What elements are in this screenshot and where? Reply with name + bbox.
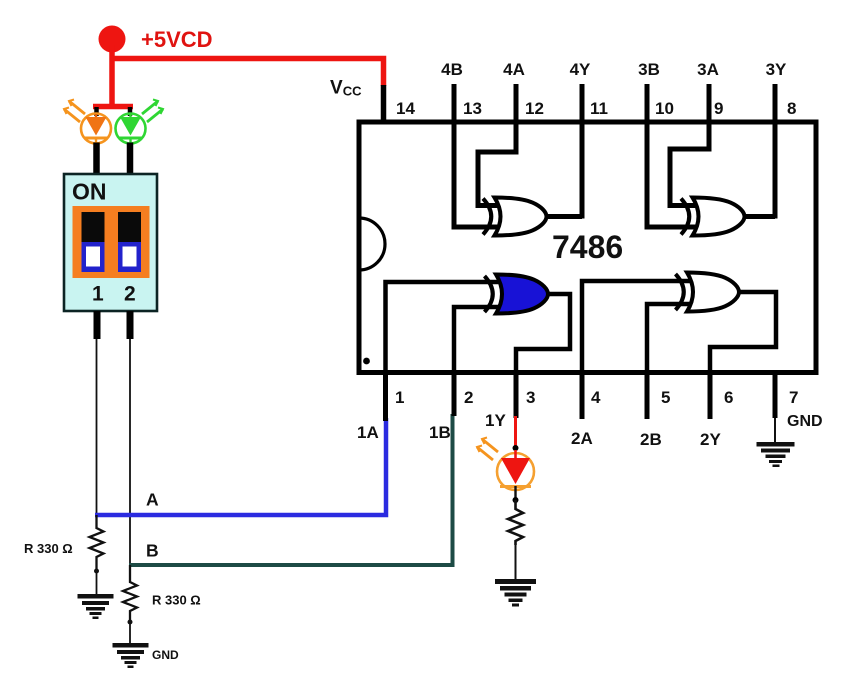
label +5VCD	[141, 27, 213, 52]
wire red +5V horizontal to pin 14	[112, 59, 384, 87]
svg-text:2: 2	[124, 283, 136, 306]
wire black stub into LED D1	[94, 107, 99, 116]
svg-text:1B: 1B	[429, 423, 451, 442]
svg-text:2Y: 2Y	[700, 430, 721, 449]
pin number 6	[724, 388, 733, 407]
wire red pin 3 to LED D3	[514, 416, 517, 450]
ground below R1	[78, 594, 114, 619]
wire pin 9 input hook to XOR U1C	[670, 84, 709, 206]
wire pin 2 stub below IC	[452, 372, 457, 416]
IC U1 7486 body	[359, 122, 816, 373]
svg-text:7: 7	[789, 388, 798, 407]
label 3B	[638, 60, 660, 79]
svg-text:2: 2	[464, 388, 473, 407]
resistor R3 at LED D3	[508, 500, 523, 579]
svg-text:3: 3	[526, 388, 535, 407]
svg-text:R 330 Ω: R 330 Ω	[152, 593, 201, 608]
label 4A	[503, 60, 525, 79]
wire pin 4 input to XOR U1B	[582, 281, 691, 372]
pin number 13	[463, 99, 482, 118]
wire black switch pin 1 stub	[94, 311, 101, 339]
wire XOR U1A output to pin 3	[516, 294, 570, 372]
wire black switch pin 2 stub	[127, 311, 134, 339]
wire black LED D2 lead to switch	[127, 143, 134, 177]
label R2 value	[152, 593, 201, 608]
wire red tee bar over LEDs	[93, 104, 133, 110]
wire black stub into LED D2	[128, 107, 133, 116]
pin number 9	[714, 99, 723, 118]
svg-text:4: 4	[591, 388, 601, 407]
pin number 3	[526, 388, 535, 407]
svg-text:9: 9	[714, 99, 723, 118]
wire red +5V vertical from node to LED tee	[109, 45, 115, 107]
pin number 7	[789, 388, 798, 407]
junction dot below LED D3	[513, 497, 519, 503]
svg-text:1: 1	[395, 388, 404, 407]
wire pin 1 input to XOR U1A	[386, 282, 504, 372]
pin number 10	[655, 99, 674, 118]
resistor R1 330 ohm	[90, 515, 104, 594]
label 2Y	[700, 430, 721, 449]
svg-text:3A: 3A	[697, 60, 719, 79]
svg-text:GND: GND	[787, 413, 823, 430]
svg-text:7486: 7486	[552, 229, 623, 265]
wire teal net B to pin 2	[129, 414, 453, 565]
svg-text:ON: ON	[72, 179, 107, 205]
svg-text:10: 10	[655, 99, 674, 118]
wire pin 5 input to XOR U1B	[647, 304, 691, 372]
XOR gate U1A (blue)	[485, 275, 549, 314]
ground below R2 with GND label	[113, 643, 180, 668]
label 1A	[357, 423, 379, 442]
XOR gate U1C	[681, 198, 745, 236]
label 1Y	[485, 411, 506, 430]
wire pin 10 input to XOR U1C	[647, 84, 696, 227]
label 1B	[429, 423, 451, 442]
svg-text:R 330 Ω: R 330 Ω	[24, 541, 73, 556]
svg-text:4A: 4A	[503, 60, 525, 79]
wire pin 2 input to XOR U1A	[454, 307, 503, 372]
XOR gate U1D	[483, 198, 547, 236]
node A label	[146, 490, 159, 510]
svg-text:14: 14	[396, 99, 415, 118]
wire blue net A to pin 1	[95, 418, 386, 515]
wire pin 4 stub below IC	[580, 372, 585, 419]
svg-text:4B: 4B	[441, 60, 463, 79]
svg-text:2B: 2B	[640, 430, 662, 449]
wire pin 3 stub below IC	[514, 372, 519, 418]
wire pin 12 input hook to XOR U1D	[478, 84, 516, 206]
svg-text:GND: GND	[152, 648, 179, 662]
label 7486	[552, 229, 623, 265]
pin number 5	[661, 388, 670, 407]
svg-text:6: 6	[724, 388, 733, 407]
pin number 11	[590, 99, 608, 118]
svg-text:A: A	[146, 490, 159, 510]
svg-text:+5VCD: +5VCD	[141, 27, 213, 52]
label 2B	[640, 430, 662, 449]
wire black pin 14 stub	[381, 85, 387, 122]
LED D1 (orange)	[64, 100, 111, 144]
XOR gate U1B	[676, 273, 740, 312]
svg-text:2A: 2A	[571, 429, 593, 448]
label 4B	[441, 60, 463, 79]
ground below LED resistor	[495, 579, 536, 607]
label 3Y	[766, 60, 787, 79]
label 2A	[571, 429, 593, 448]
ground at pin 7	[757, 442, 795, 467]
pin number 2	[464, 388, 473, 407]
wire XOR U1B output to pin 6	[710, 292, 776, 372]
svg-text:13: 13	[463, 99, 482, 118]
label 3A	[697, 60, 719, 79]
svg-text:1: 1	[92, 283, 104, 306]
label GND at pin 7	[787, 413, 823, 430]
wire thin pin 7 to ground	[774, 418, 776, 443]
wire pin 8 output net of XOR U1C	[740, 84, 775, 219]
wire thin from switch 2 to node B and resistor R2	[129, 339, 131, 583]
resistor R2 330 ohm	[123, 565, 137, 643]
svg-text:12: 12	[525, 99, 544, 118]
wire pin 5 stub below IC	[645, 372, 650, 419]
LED D2 (green)	[116, 100, 164, 144]
DIP switch S1 body	[64, 174, 157, 311]
label R1 value	[24, 541, 73, 556]
wire thin from switch 1 to node A and resistor R1	[96, 339, 98, 529]
node B label	[146, 541, 159, 561]
svg-text:3Y: 3Y	[766, 60, 787, 79]
svg-text:4Y: 4Y	[570, 60, 591, 79]
svg-text:3B: 3B	[638, 60, 660, 79]
IC notch	[359, 218, 385, 270]
power node +5VCD junction dot	[99, 26, 126, 53]
pin number 8	[787, 99, 796, 118]
wire pin 7 stub below IC	[773, 372, 778, 418]
svg-text:B: B	[146, 541, 159, 561]
wire pin 11 output net of XOR U1D	[548, 84, 582, 219]
label VCC	[330, 78, 362, 99]
svg-text:1A: 1A	[357, 423, 379, 442]
svg-text:5: 5	[661, 388, 670, 407]
pin number 1	[395, 388, 404, 407]
junction dot above LED D3	[513, 445, 519, 451]
svg-text:1Y: 1Y	[485, 411, 506, 430]
pin number 12	[525, 99, 544, 118]
svg-text:11: 11	[590, 99, 608, 118]
wire pin 1 stub below IC	[383, 372, 388, 421]
pin number 14	[396, 99, 415, 118]
svg-text:8: 8	[787, 99, 796, 118]
wire pin 13 input to XOR U1D	[454, 84, 504, 227]
IC pin 1 marker dot	[363, 358, 370, 365]
pin number 4	[591, 388, 601, 407]
wire black LED D1 lead to switch	[93, 143, 100, 177]
label 4Y	[570, 60, 591, 79]
wire pin 6 stub below IC	[708, 372, 713, 419]
LED D3 (red indicator)	[477, 438, 534, 501]
